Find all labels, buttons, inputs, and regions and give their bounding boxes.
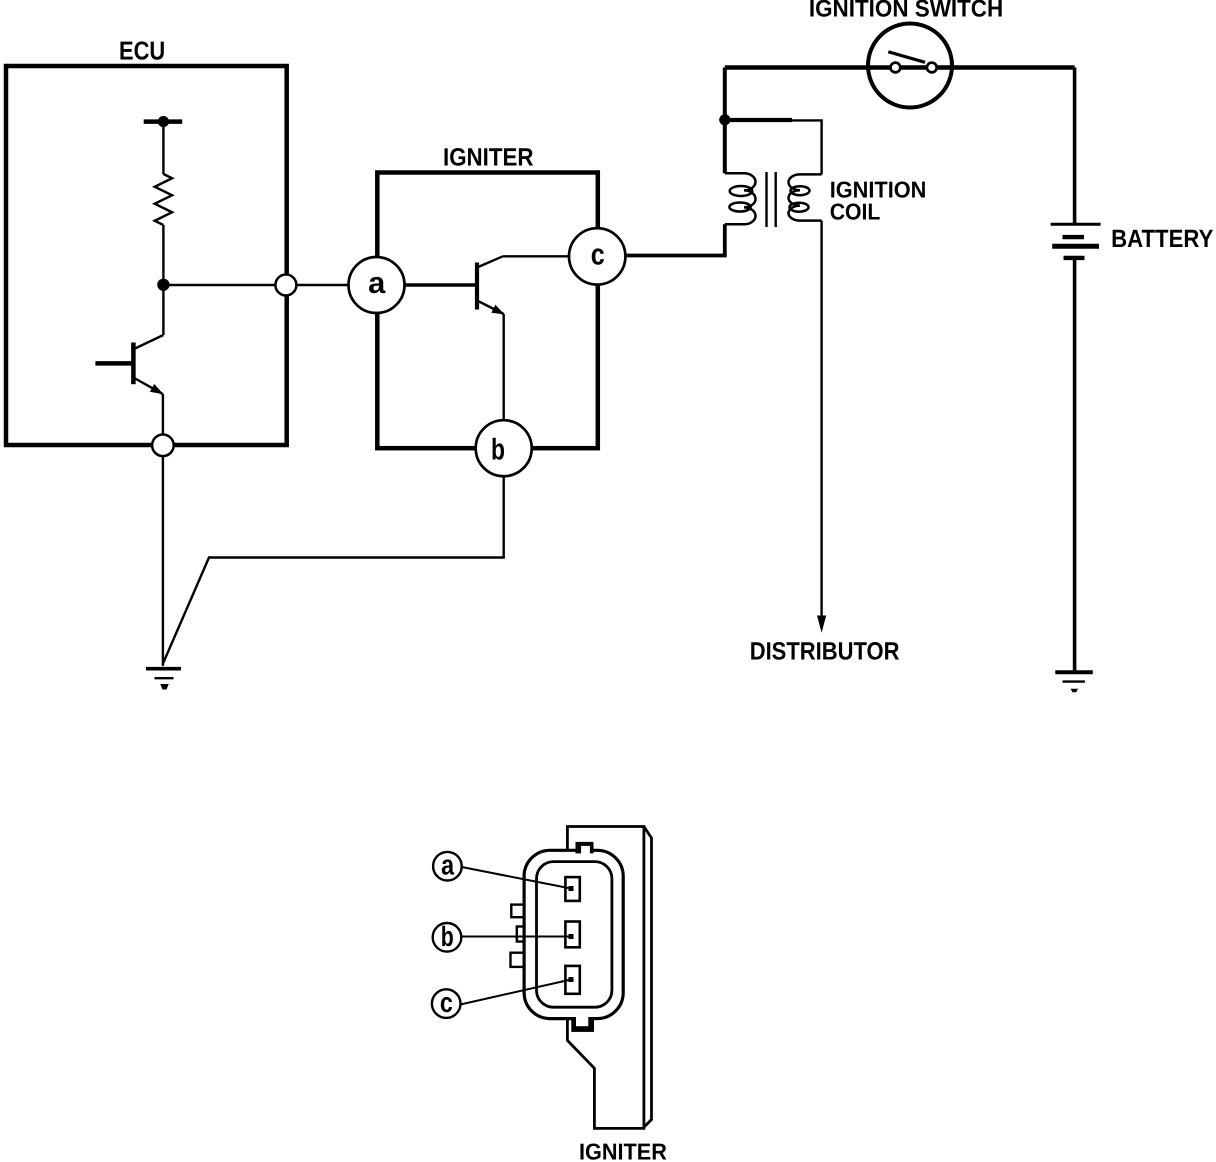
wire: node to ECU output terminal xyxy=(163,284,286,286)
svg-text:c: c xyxy=(591,239,605,272)
svg-text:b: b xyxy=(491,433,505,466)
ignition coil T1 primary winding xyxy=(725,173,756,224)
connector shroud inner xyxy=(537,862,612,1008)
wire: battery to ground xyxy=(1073,260,1077,671)
ground (ECU side) xyxy=(146,669,181,690)
svg-text:a: a xyxy=(441,850,454,881)
ground (battery side) xyxy=(1055,672,1093,692)
svg-text:BATTERY: BATTERY xyxy=(1111,225,1214,253)
svg-text:IGNITION SWITCH: IGNITION SWITCH xyxy=(809,0,1003,23)
wire: node down to Q1 collector xyxy=(162,285,164,335)
igniter connector body (back plate) xyxy=(567,827,644,1129)
transistor Q1 (ECU) xyxy=(95,335,163,394)
wire: ECU ground terminal down to ground xyxy=(162,456,164,666)
ECU ground terminal (open circle on bottom edge) xyxy=(152,435,174,457)
svg-text:COIL: COIL xyxy=(830,199,881,225)
ignition switch SW1 xyxy=(868,24,952,108)
ECU output terminal (open circle on right edge) xyxy=(275,275,296,296)
IGNITER box xyxy=(377,173,598,449)
connector left tab lower xyxy=(511,953,530,967)
wire: coil primary bottom to terminal c xyxy=(626,224,725,255)
svg-text:b: b xyxy=(441,921,454,952)
connector shroud outer xyxy=(524,850,623,1018)
arrowhead to distributor xyxy=(817,616,826,633)
terminal a xyxy=(349,257,405,313)
svg-text:ECU: ECU xyxy=(119,36,165,66)
svg-text:DISTRIBUTOR: DISTRIBUTOR xyxy=(750,637,900,665)
wire: a to Q2 base xyxy=(404,283,477,287)
wire: supply to resistor xyxy=(162,122,164,174)
wire: b down to ground (polyline) xyxy=(163,476,504,663)
battery BAT xyxy=(1051,224,1101,258)
wire: resistor to node xyxy=(162,225,164,285)
wire: Q1 emitter to ECU ground terminal xyxy=(162,394,164,445)
power supply symbol B+ xyxy=(144,116,183,127)
svg-text:c: c xyxy=(440,987,453,1018)
connector top tab xyxy=(576,842,594,854)
pin c xyxy=(565,966,579,994)
connector left tab upper xyxy=(511,905,529,918)
wire: coil secondary to distributor xyxy=(820,221,822,617)
wire: Q2 emitter to terminal b xyxy=(503,314,505,421)
connector bottom tab xyxy=(571,1018,594,1032)
connector left key middle xyxy=(517,927,530,942)
svg-text:a: a xyxy=(368,267,386,300)
pin a xyxy=(565,877,579,901)
terminal b xyxy=(476,420,532,476)
terminal c xyxy=(569,228,625,284)
connector body 3D edge xyxy=(644,827,652,1127)
callout leader b xyxy=(461,936,571,938)
wire: Q2 collector to terminal c xyxy=(503,255,570,257)
callout circle c xyxy=(432,987,461,1018)
wire: top feed down to coil primary xyxy=(723,68,727,174)
wire: switch to battery xyxy=(1073,68,1077,224)
ECU box xyxy=(6,66,287,445)
svg-text:IGNITER: IGNITER xyxy=(579,1139,667,1162)
callout leader c xyxy=(461,980,571,1005)
wire: ECU output terminal to node a xyxy=(297,284,350,286)
ignition coil T1 core xyxy=(767,172,776,227)
wire: junction to coil secondary top xyxy=(725,118,792,122)
resistor R1 (ECU pull-up) xyxy=(155,174,172,225)
svg-text:IGNITER: IGNITER xyxy=(443,143,534,171)
junction dot (coil feed) xyxy=(719,114,730,125)
ignition coil T1 secondary winding xyxy=(789,174,822,220)
callout circle a xyxy=(433,850,462,881)
wire: top feed (coil branch - switch - battery) xyxy=(725,65,1075,70)
callout leader a xyxy=(462,867,571,889)
transistor Q2 (igniter) xyxy=(477,256,505,314)
pin b xyxy=(565,922,579,948)
callout circle b xyxy=(433,921,462,952)
junction node (ECU internal) xyxy=(157,279,169,291)
